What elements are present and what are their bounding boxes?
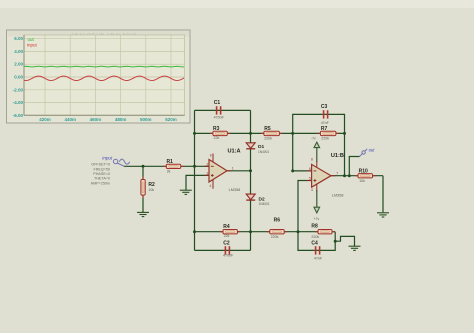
svg-text:4.00: 4.00 xyxy=(14,49,23,54)
svg-text:R8: R8 xyxy=(311,224,318,230)
resistor R3 xyxy=(210,126,230,140)
wire to pin5 xyxy=(298,181,312,232)
wire probe tap xyxy=(349,157,359,176)
svg-text:6.00: 6.00 xyxy=(14,36,23,41)
resistor R8 xyxy=(311,224,335,239)
svg-text:1: 1 xyxy=(232,167,234,171)
generator input (sine source) xyxy=(113,159,129,166)
svg-text:R5: R5 xyxy=(264,126,271,132)
ground at R10 output xyxy=(377,213,389,217)
op-amp U1:A LM358 xyxy=(205,149,241,192)
svg-text:R3: R3 xyxy=(213,126,220,132)
svg-text:R10: R10 xyxy=(359,169,368,175)
wire C3 loop xyxy=(293,114,345,133)
wire C4 loop xyxy=(298,232,335,251)
probe out xyxy=(360,148,376,157)
svg-text:420m: 420m xyxy=(39,117,51,122)
svg-text:220k: 220k xyxy=(264,136,272,140)
svg-text:6: 6 xyxy=(309,167,311,171)
capacitor C3 xyxy=(321,104,330,125)
resistor R1 xyxy=(163,159,183,174)
svg-text:22k: 22k xyxy=(214,136,220,140)
svg-text:U1:B: U1:B xyxy=(331,153,344,159)
wire to output ground xyxy=(382,176,384,213)
svg-text:+7v: +7v xyxy=(314,217,320,221)
wire R8 row xyxy=(298,231,335,233)
svg-text:8: 8 xyxy=(311,157,313,161)
capacitor C1 xyxy=(214,100,225,120)
svg-text:47nF: 47nF xyxy=(321,121,330,125)
svg-text:-4.00: -4.00 xyxy=(13,100,24,105)
capacitor C4 xyxy=(311,241,323,261)
svg-text:2: 2 xyxy=(206,162,208,166)
svg-text:1N4001: 1N4001 xyxy=(259,202,270,206)
diode D1 1N4001 xyxy=(246,143,269,154)
wire bottom R4 R6 row xyxy=(195,231,299,233)
svg-text:C3: C3 xyxy=(321,104,328,110)
svg-text:R4: R4 xyxy=(223,224,230,230)
svg-text:R1: R1 xyxy=(167,159,174,165)
svg-text:2k: 2k xyxy=(167,169,171,173)
svg-text:8: 8 xyxy=(210,153,212,157)
svg-text:220k: 220k xyxy=(271,235,279,239)
svg-text:THETA=0: THETA=0 xyxy=(94,177,110,181)
resistor R7 xyxy=(317,126,339,141)
ground under R2 xyxy=(137,212,149,216)
svg-text:D1: D1 xyxy=(258,144,264,150)
svg-text:LM358: LM358 xyxy=(332,193,344,197)
svg-text:input: input xyxy=(102,155,113,160)
wire right rail D1 D2 xyxy=(250,110,252,250)
svg-text:FREQ=50: FREQ=50 xyxy=(94,167,111,171)
svg-text:520m: 520m xyxy=(165,117,177,122)
svg-text:7: 7 xyxy=(336,172,338,176)
svg-text:U1:A: U1:A xyxy=(228,149,241,155)
wire C2 bottom row xyxy=(195,249,251,251)
resistor R4 xyxy=(220,224,240,238)
svg-text:C2: C2 xyxy=(223,241,230,247)
svg-text:500m: 500m xyxy=(140,117,152,122)
wire R7 row xyxy=(293,132,345,134)
svg-text:AMP=250m: AMP=250m xyxy=(91,181,110,185)
ground at U1:A pin3 xyxy=(180,190,192,194)
svg-text:470nF: 470nF xyxy=(223,253,234,257)
svg-text:10k: 10k xyxy=(148,188,154,192)
wire left rail xyxy=(194,110,196,250)
svg-text:220k: 220k xyxy=(311,235,319,239)
svg-text:3: 3 xyxy=(206,172,208,176)
wire R3 row xyxy=(195,132,251,134)
wire to pin6 xyxy=(293,133,312,171)
svg-text:out: out xyxy=(28,37,35,42)
diode D2 1N4001 xyxy=(246,194,270,206)
wire feedback to output xyxy=(344,133,346,175)
wire pin3 to ground xyxy=(186,175,209,190)
wire U1A output xyxy=(227,170,251,172)
wire step to ground xyxy=(335,236,354,246)
svg-text:2.00: 2.00 xyxy=(14,62,23,67)
svg-text:-7v: -7v xyxy=(311,136,316,140)
wire top C1 row xyxy=(195,109,251,111)
resistor R2 xyxy=(141,177,155,199)
resistor R10 xyxy=(355,169,376,183)
wire input to pin2 xyxy=(124,165,209,167)
svg-text:OFFSET=0: OFFSET=0 xyxy=(91,163,110,167)
svg-text:22k: 22k xyxy=(224,234,230,238)
trace out (green) xyxy=(24,65,184,68)
ground at R8 C4 tap xyxy=(349,246,361,250)
svg-text:5: 5 xyxy=(309,177,311,181)
svg-text:4: 4 xyxy=(311,188,313,192)
svg-text:480m: 480m xyxy=(115,117,127,122)
svg-text:C4: C4 xyxy=(311,241,318,247)
svg-text:-2.00: -2.00 xyxy=(13,87,24,92)
wire U1B output R10 row xyxy=(331,175,383,177)
svg-text:-6.00: -6.00 xyxy=(13,113,24,118)
svg-text:input: input xyxy=(27,42,38,47)
svg-text:0.00: 0.00 xyxy=(14,75,23,80)
svg-text:out: out xyxy=(369,148,376,153)
resistor R6 xyxy=(267,218,287,240)
power terminal -7v (U1:B pin 8) xyxy=(311,136,320,162)
svg-text:470nF: 470nF xyxy=(214,116,225,120)
wire to R2 xyxy=(142,166,144,179)
graph window ANALOGUE ANALYSIS xyxy=(7,30,191,123)
svg-text:460m: 460m xyxy=(90,117,102,122)
junction dots xyxy=(142,165,145,168)
power terminal +7v (U1:B pin 4) xyxy=(314,190,320,221)
svg-text:C1: C1 xyxy=(214,100,221,106)
trace input (red) xyxy=(24,76,184,80)
svg-text:10k: 10k xyxy=(359,179,365,183)
svg-text:440m: 440m xyxy=(64,117,76,122)
svg-text:1N4001: 1N4001 xyxy=(258,150,269,154)
wire R5 row xyxy=(251,132,293,134)
resistor R5 xyxy=(261,126,283,141)
svg-text:4: 4 xyxy=(210,184,212,188)
svg-text:PHASE=0: PHASE=0 xyxy=(93,172,110,176)
svg-text:220k: 220k xyxy=(321,136,329,140)
svg-text:R6: R6 xyxy=(274,218,281,224)
svg-text:47nF: 47nF xyxy=(314,256,323,260)
svg-text:LM358: LM358 xyxy=(229,188,241,192)
op-amp U1:B LM358 xyxy=(307,153,344,198)
wire R2 to ground xyxy=(142,195,144,212)
capacitor C2 xyxy=(223,241,234,258)
svg-text:R7: R7 xyxy=(321,126,328,132)
